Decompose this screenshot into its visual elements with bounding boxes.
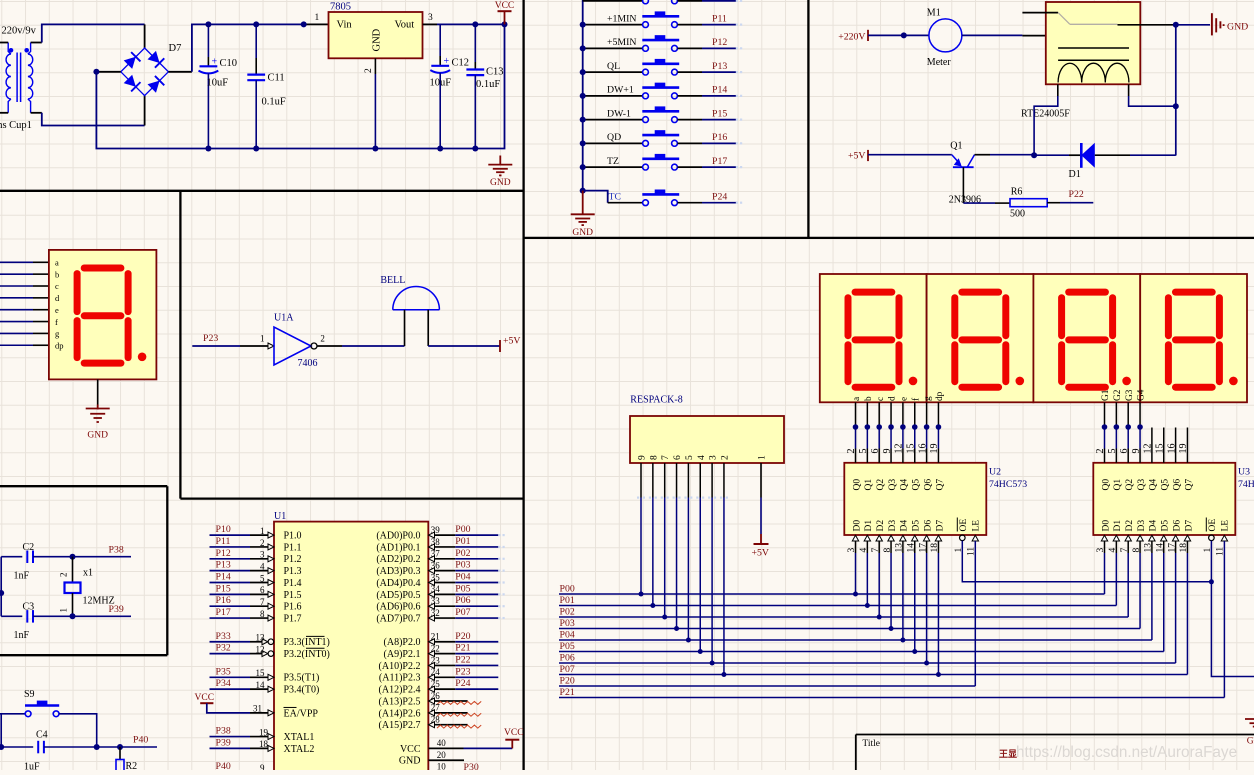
svg-text:BELL: BELL bbox=[380, 275, 405, 286]
wire relay coil right pin bbox=[1128, 84, 1130, 96]
svg-text:D7: D7 bbox=[1184, 520, 1194, 532]
latch U3 74HC573 bbox=[1093, 444, 1254, 557]
svg-text:XTAL1: XTAL1 bbox=[284, 732, 315, 743]
svg-text:U2: U2 bbox=[989, 467, 1001, 478]
svg-text:1: 1 bbox=[260, 526, 265, 536]
svg-text:(A15)P2.7: (A15)P2.7 bbox=[379, 720, 421, 731]
svg-text:10: 10 bbox=[437, 762, 447, 770]
svg-text:74HC573: 74HC573 bbox=[1238, 479, 1254, 490]
svg-text:2: 2 bbox=[320, 334, 325, 344]
pin 35 (AD4)P0.4 with net label P04 bbox=[376, 572, 504, 589]
svg-text:P06: P06 bbox=[560, 652, 575, 663]
svg-text:G4: G4 bbox=[1137, 389, 1147, 401]
capacitor C11 0.1uF bbox=[247, 24, 286, 148]
svg-text:D1: D1 bbox=[1113, 520, 1123, 532]
display DS2 pin labels a-dp bbox=[852, 391, 945, 401]
svg-text:(AD1)P0.1: (AD1)P0.1 bbox=[376, 542, 420, 553]
U2 LE pin wire to P20 bbox=[972, 535, 978, 541]
section divider vertical center bbox=[522, 0, 524, 770]
wire bridge right up to VCC rail bbox=[168, 71, 192, 73]
wire crystal top to P38 bbox=[73, 556, 132, 558]
push button S1 bbox=[583, 0, 743, 4]
svg-text:2: 2 bbox=[720, 455, 730, 460]
svg-text:P38: P38 bbox=[216, 726, 231, 737]
svg-text:P39: P39 bbox=[216, 737, 231, 748]
section divider buttons/relay vertical bbox=[807, 0, 809, 238]
junction pin1 wire bbox=[301, 21, 307, 27]
junction button bus bbox=[580, 117, 586, 123]
svg-text:4: 4 bbox=[260, 561, 265, 571]
capacitor C3 1nF bbox=[1, 602, 72, 642]
U2 OE pin bubble and wire bbox=[960, 535, 966, 541]
svg-text:f: f bbox=[55, 317, 58, 327]
wires to left display pins a-dp bbox=[0, 261, 33, 263]
junction U2 D3 to P03 bbox=[889, 626, 894, 631]
power port +5V bell bbox=[499, 340, 501, 352]
svg-text:dp: dp bbox=[55, 340, 64, 350]
svg-text:TC: TC bbox=[609, 192, 622, 203]
svg-text:b: b bbox=[55, 269, 59, 279]
U2 output pin triangles and wires down bbox=[852, 535, 858, 594]
wire D1 to GND net bbox=[1095, 154, 1130, 156]
svg-text:U1: U1 bbox=[274, 511, 286, 522]
junction button bus bbox=[580, 45, 586, 51]
svg-text:P12: P12 bbox=[712, 37, 727, 48]
svg-text:3: 3 bbox=[709, 455, 719, 460]
svg-text:P13: P13 bbox=[216, 560, 231, 571]
svg-text:P16: P16 bbox=[216, 595, 231, 606]
svg-text:P23: P23 bbox=[455, 666, 470, 677]
svg-text:7: 7 bbox=[260, 597, 265, 607]
svg-text:7805: 7805 bbox=[330, 2, 351, 13]
svg-text:(AD4)P0.4: (AD4)P0.4 bbox=[376, 578, 420, 589]
svg-text:P33: P33 bbox=[216, 631, 231, 642]
junction U2 D1 to P01 bbox=[865, 603, 870, 608]
svg-text:Meter: Meter bbox=[927, 57, 952, 68]
svg-text:e: e bbox=[55, 305, 59, 315]
wire S9 left down bbox=[0, 714, 2, 747]
svg-text:(AD2)P0.2: (AD2)P0.2 bbox=[376, 554, 420, 565]
wire P23 to U1A input bbox=[192, 345, 240, 347]
svg-text:D4: D4 bbox=[900, 520, 910, 532]
svg-text:Trans Cup1: Trans Cup1 bbox=[0, 120, 32, 131]
pin 3 P1.2 with wire and net label P12 bbox=[210, 548, 302, 565]
svg-text:7: 7 bbox=[661, 455, 671, 460]
svg-text:2: 2 bbox=[260, 538, 265, 548]
svg-text:+5MIN: +5MIN bbox=[607, 37, 636, 48]
pin 27 (A14)P2.6 dangling bbox=[379, 703, 482, 720]
svg-text:P06: P06 bbox=[455, 595, 470, 606]
transistor Q1 2N3906 bbox=[949, 141, 981, 206]
junction C2 / crystal bbox=[70, 554, 76, 560]
U3 unconnected input stubs Q4-Q7 bbox=[1151, 428, 1153, 463]
svg-text:20: 20 bbox=[437, 750, 447, 760]
junction U2 D2 to P02 bbox=[877, 615, 882, 620]
svg-text:9: 9 bbox=[260, 763, 265, 770]
svg-text:9: 9 bbox=[638, 455, 648, 460]
svg-text:24: 24 bbox=[431, 667, 441, 677]
svg-text:23: 23 bbox=[431, 655, 441, 665]
svg-text:LE: LE bbox=[972, 520, 982, 532]
junction U2/U3 OE bbox=[1209, 579, 1214, 584]
svg-text:P22: P22 bbox=[1069, 189, 1084, 200]
svg-text:Vin: Vin bbox=[337, 20, 353, 31]
svg-text:6: 6 bbox=[260, 585, 265, 595]
capacitor C12 10uF bbox=[430, 24, 470, 148]
svg-text:(A13)P2.5: (A13)P2.5 bbox=[379, 696, 421, 707]
svg-text:S9: S9 bbox=[24, 689, 35, 700]
microcontroller U1 (8051) bbox=[274, 522, 428, 775]
svg-text:8: 8 bbox=[649, 455, 659, 460]
pin 34 (AD5)P0.5 with net label P05 bbox=[376, 583, 504, 600]
svg-text:U3: U3 bbox=[1238, 467, 1250, 478]
pin 18 XTAL2 bbox=[210, 737, 315, 754]
svg-text:P03: P03 bbox=[560, 618, 575, 629]
junction button bus bottom bbox=[580, 188, 586, 194]
wire meter to relay bbox=[962, 34, 1023, 36]
wire net P04 horizontal bbox=[559, 639, 1152, 641]
svg-text:D2: D2 bbox=[1125, 520, 1135, 532]
svg-text:R6: R6 bbox=[1011, 187, 1023, 198]
svg-text:6: 6 bbox=[673, 455, 683, 460]
svg-text:GND: GND bbox=[490, 178, 511, 188]
pin 12 P3.2(INT0) bbox=[210, 643, 330, 660]
svg-text:D4: D4 bbox=[1149, 520, 1159, 532]
junction bridge left bbox=[93, 69, 99, 75]
pin 20 GND wire bbox=[399, 750, 464, 767]
junction RESPACK pin to P04 bbox=[686, 638, 691, 643]
wire relay coil left pin bbox=[1057, 84, 1059, 96]
svg-text:P02: P02 bbox=[560, 606, 575, 617]
svg-text:P32: P32 bbox=[216, 643, 231, 654]
svg-text:a: a bbox=[852, 397, 862, 401]
wire net P21 horizontal bbox=[559, 697, 1224, 699]
svg-text:Q6: Q6 bbox=[1172, 479, 1182, 491]
pin 39 (AD0)P0.0 with net label P00 bbox=[376, 524, 504, 541]
junction VCC corner bbox=[502, 21, 508, 27]
junction RESPACK pin to P02 bbox=[662, 615, 667, 620]
svg-text:C11: C11 bbox=[268, 73, 285, 84]
svg-text:D0: D0 bbox=[852, 520, 862, 532]
svg-text:C12: C12 bbox=[452, 58, 470, 69]
wire crystal bottom to P39 bbox=[73, 615, 132, 617]
svg-text:P03: P03 bbox=[455, 560, 470, 571]
svg-text:1: 1 bbox=[758, 455, 768, 460]
section divider U1 top bbox=[180, 497, 523, 499]
junction VCC rail C10 bbox=[205, 21, 211, 27]
7-segment display DS4 bbox=[1033, 274, 1140, 402]
pin 28 (A15)P2.7 dangling bbox=[379, 715, 482, 732]
svg-text:dp: dp bbox=[935, 391, 945, 401]
svg-text:Q1: Q1 bbox=[1113, 479, 1123, 491]
wire net P01 horizontal bbox=[559, 605, 1116, 607]
svg-text:P11: P11 bbox=[712, 13, 727, 24]
pin 1 arrow bbox=[268, 343, 274, 349]
svg-text:R2: R2 bbox=[126, 761, 138, 770]
svg-text:g: g bbox=[923, 396, 933, 401]
svg-text:26: 26 bbox=[431, 691, 441, 701]
svg-text:P01: P01 bbox=[455, 536, 470, 547]
pin 25 (A12)P2.4 net P24 bbox=[379, 678, 499, 695]
bridge rectifier D7 bbox=[121, 43, 182, 96]
svg-text:P34: P34 bbox=[216, 678, 231, 689]
svg-text:VCC: VCC bbox=[195, 693, 215, 703]
svg-text:P3.3(INT1): P3.3(INT1) bbox=[284, 637, 330, 648]
svg-text:(A8)P2.0: (A8)P2.0 bbox=[384, 637, 421, 648]
svg-text:LE: LE bbox=[1221, 520, 1231, 532]
svg-text:(AD3)P0.3: (AD3)P0.3 bbox=[376, 566, 420, 577]
svg-text:+: + bbox=[212, 57, 218, 68]
junction button bus bbox=[580, 140, 586, 146]
svg-text:RESPACK-8: RESPACK-8 bbox=[630, 395, 682, 406]
wire BELL to +5V bbox=[428, 345, 500, 347]
svg-text:1: 1 bbox=[59, 608, 69, 613]
svg-text:Q7: Q7 bbox=[935, 479, 945, 491]
svg-text:GND: GND bbox=[1227, 22, 1248, 33]
svg-text:P39: P39 bbox=[109, 604, 124, 615]
svg-text:U1A: U1A bbox=[274, 313, 294, 324]
svg-text:P21: P21 bbox=[560, 687, 575, 698]
junction Q1 collector / coil bbox=[1031, 152, 1037, 158]
resistor pack RESPACK-8 bbox=[630, 395, 784, 464]
svg-text:P40: P40 bbox=[216, 761, 231, 770]
svg-text:22: 22 bbox=[431, 643, 440, 653]
junction RESPACK pin to P05 bbox=[698, 649, 703, 654]
svg-text:D5: D5 bbox=[912, 520, 922, 532]
svg-text:P24: P24 bbox=[455, 678, 470, 689]
svg-text:+5V: +5V bbox=[848, 151, 866, 162]
svg-text:+5V: +5V bbox=[752, 548, 770, 559]
svg-text:1uF: 1uF bbox=[24, 762, 40, 771]
push button S4 QL bbox=[583, 59, 743, 75]
svg-text:+5V: +5V bbox=[503, 335, 521, 346]
svg-text:P14: P14 bbox=[712, 85, 727, 96]
svg-text:10uF: 10uF bbox=[430, 78, 452, 89]
pin 6 P1.5 with wire and net label P15 bbox=[210, 583, 302, 600]
svg-text:DW-1: DW-1 bbox=[607, 108, 631, 119]
svg-text:D1: D1 bbox=[1069, 169, 1081, 180]
svg-text:P05: P05 bbox=[560, 641, 575, 652]
pin 1 P1.0 with wire and net label P10 bbox=[210, 524, 302, 541]
junction C3 / crystal bbox=[70, 613, 76, 619]
pin 19 XTAL1 bbox=[210, 726, 315, 743]
svg-text:25: 25 bbox=[431, 679, 441, 689]
svg-text:5: 5 bbox=[260, 573, 265, 583]
section divider crystal box top bbox=[0, 485, 167, 487]
junction C4 / S9 right bbox=[94, 744, 100, 750]
wire transformer primary bottom bbox=[0, 112, 8, 114]
svg-text:P13: P13 bbox=[712, 61, 727, 72]
svg-text:P01: P01 bbox=[560, 595, 575, 606]
svg-text:Q5: Q5 bbox=[912, 479, 922, 491]
junction U2 D4 to P04 bbox=[900, 638, 905, 643]
pin 10 P30 label bbox=[437, 762, 479, 774]
svg-text:3: 3 bbox=[428, 13, 433, 23]
resistor R6 500 bbox=[1010, 187, 1047, 220]
svg-text:D7: D7 bbox=[169, 43, 182, 54]
wire R6 to P22 bbox=[1047, 202, 1060, 204]
wire +5V to Q1 emitter bbox=[868, 154, 952, 156]
svg-text:P3.2(INT0): P3.2(INT0) bbox=[284, 649, 330, 660]
pin 31 EA/VPP wire bbox=[250, 704, 318, 720]
power port +5V respack bbox=[760, 534, 762, 544]
svg-text:+1MIN: +1MIN bbox=[607, 13, 636, 24]
svg-text:P17: P17 bbox=[216, 607, 231, 618]
svg-text:c: c bbox=[876, 397, 886, 401]
wire net P05 horizontal bbox=[559, 651, 1164, 653]
power port VCC top bbox=[504, 11, 506, 24]
svg-text:38: 38 bbox=[431, 537, 441, 547]
display DS4 pin labels G1-G4 bbox=[1101, 389, 1147, 401]
svg-text:+220V: +220V bbox=[838, 32, 865, 43]
svg-text:GND: GND bbox=[572, 228, 593, 238]
svg-text:P1.3: P1.3 bbox=[284, 566, 302, 577]
svg-text:35: 35 bbox=[431, 572, 441, 582]
svg-text:P14: P14 bbox=[216, 572, 231, 583]
svg-text:37: 37 bbox=[431, 549, 441, 559]
pin 38 (AD1)P0.1 with net label P01 bbox=[376, 536, 504, 553]
svg-text:8: 8 bbox=[260, 609, 265, 619]
svg-text:VCC: VCC bbox=[400, 744, 421, 755]
svg-text:Q5: Q5 bbox=[1161, 479, 1171, 491]
svg-text:VCC: VCC bbox=[504, 728, 524, 738]
junction ground rail C11 bbox=[253, 146, 259, 152]
svg-text:b: b bbox=[864, 396, 874, 401]
ground symbol latches GND bbox=[1245, 718, 1254, 720]
svg-text:D3: D3 bbox=[888, 520, 898, 532]
wire net P02 horizontal bbox=[559, 616, 1128, 618]
wire net P06 horizontal bbox=[559, 662, 1176, 664]
wire net P20 horizontal bbox=[559, 685, 975, 687]
pin 13 P3.3(INT1) bbox=[210, 631, 330, 648]
svg-text:RTE24005F: RTE24005F bbox=[1021, 109, 1070, 120]
svg-text:OE: OE bbox=[959, 519, 969, 532]
title block border bbox=[856, 734, 1254, 736]
section divider left-display right edge bbox=[179, 191, 181, 499]
wires display DS2 to U2 inputs bbox=[855, 402, 857, 463]
junction relay GND net bbox=[1173, 22, 1179, 28]
svg-text:P35: P35 bbox=[216, 666, 231, 677]
transformer T1 (220v/9v Trans Cup1) bbox=[0, 26, 37, 132]
wires display DS4 G1-G4 to U3 bbox=[1104, 402, 1106, 463]
svg-text:4: 4 bbox=[697, 455, 707, 460]
capacitor C13 0.1uF bbox=[466, 24, 503, 148]
svg-text:(AD0)P0.0: (AD0)P0.0 bbox=[376, 531, 420, 542]
svg-text:D7: D7 bbox=[935, 520, 945, 532]
svg-text:P30: P30 bbox=[464, 762, 479, 770]
wire bridge left to ground rail bbox=[96, 71, 120, 73]
svg-text:OE: OE bbox=[1208, 519, 1218, 532]
pin 15 P3.5(T1) bbox=[210, 666, 320, 683]
wire U1A output bbox=[317, 345, 342, 347]
resistor R2 bbox=[116, 747, 137, 775]
U3 LE pin wire to P21 bbox=[1221, 535, 1227, 541]
svg-text:Title: Title bbox=[862, 739, 880, 749]
junction U2 D5 to P05 bbox=[912, 649, 917, 654]
svg-text:D5: D5 bbox=[1161, 520, 1171, 532]
svg-text:P1.5: P1.5 bbox=[284, 590, 302, 601]
wire net P07 horizontal bbox=[559, 674, 1187, 676]
svg-text:P23: P23 bbox=[203, 333, 218, 344]
svg-text:x1: x1 bbox=[83, 568, 93, 579]
wire left display common to ground bbox=[97, 379, 99, 404]
junction button bus bbox=[580, 69, 586, 75]
svg-text:P1.0: P1.0 bbox=[284, 531, 302, 542]
wire 7805 pin3 out bbox=[423, 23, 437, 25]
svg-text:0.1uF: 0.1uF bbox=[262, 97, 286, 108]
svg-text:D6: D6 bbox=[923, 520, 933, 532]
voltage regulator U 7805 bbox=[315, 2, 434, 74]
svg-text:Q0: Q0 bbox=[852, 479, 862, 491]
junction coil to GND net bbox=[1173, 103, 1179, 109]
svg-text:Q2: Q2 bbox=[1125, 479, 1135, 491]
wire to GND symbol right bbox=[1176, 24, 1210, 26]
svg-text:+: + bbox=[444, 56, 450, 67]
svg-text:D0: D0 bbox=[1101, 520, 1111, 532]
svg-text:P40: P40 bbox=[133, 735, 148, 746]
svg-text:P11: P11 bbox=[216, 536, 231, 547]
svg-text:P20: P20 bbox=[560, 675, 575, 686]
svg-text:P1.7: P1.7 bbox=[284, 613, 302, 624]
ground symbol left display GND bbox=[97, 405, 99, 410]
pin 21 (A8)P2.0 net P20 bbox=[384, 631, 499, 648]
junction button bus bbox=[580, 164, 586, 170]
svg-text:10uF: 10uF bbox=[207, 78, 229, 89]
svg-text:18: 18 bbox=[259, 739, 269, 749]
wire GND net vertical bbox=[1175, 25, 1177, 156]
svg-text:C10: C10 bbox=[220, 58, 238, 69]
push button S9 bbox=[0, 689, 97, 747]
section divider right area horizontal bbox=[524, 237, 1254, 239]
svg-text:P21: P21 bbox=[455, 643, 470, 654]
svg-text:P20: P20 bbox=[455, 631, 470, 642]
svg-text:1nF: 1nF bbox=[14, 630, 30, 641]
junction S9 left bbox=[0, 744, 4, 750]
svg-text:0.1uF: 0.1uF bbox=[476, 79, 500, 90]
svg-text:e: e bbox=[900, 397, 910, 401]
svg-text:74HC573: 74HC573 bbox=[989, 479, 1027, 490]
svg-text:33: 33 bbox=[431, 596, 441, 606]
svg-text:P16: P16 bbox=[712, 132, 727, 143]
wire transformer secondary bottom to bridge bbox=[31, 112, 42, 114]
7-segment display DS1 (left) bbox=[49, 250, 156, 380]
wire Q1 base to R6 bbox=[963, 202, 995, 204]
svg-text:D1: D1 bbox=[864, 520, 874, 532]
ground symbol power section GND bbox=[499, 156, 501, 165]
wire ground rail left bbox=[96, 24, 504, 148]
svg-text:(AD6)P0.6: (AD6)P0.6 bbox=[376, 602, 420, 613]
pin 5 P1.4 with wire and net label P14 bbox=[210, 572, 302, 589]
svg-text:c: c bbox=[55, 281, 59, 291]
7-segment display DS3 bbox=[927, 274, 1034, 402]
svg-text:P00: P00 bbox=[560, 583, 575, 594]
pin 33 (AD6)P0.6 with net label P06 bbox=[376, 595, 504, 612]
svg-text:P04: P04 bbox=[455, 572, 470, 583]
svg-text:G1: G1 bbox=[1101, 389, 1111, 401]
svg-text:https://blog.csdn.net/AuroraFa: https://blog.csdn.net/AuroraFaye bbox=[1016, 744, 1237, 761]
wire +220V to meter bbox=[868, 34, 929, 36]
svg-text:(A9)P2.1: (A9)P2.1 bbox=[384, 649, 421, 660]
svg-text:500: 500 bbox=[1010, 209, 1025, 220]
svg-text:P24: P24 bbox=[712, 192, 727, 203]
pin 23 (A10)P2.2 net P22 bbox=[379, 654, 499, 671]
svg-text:31: 31 bbox=[253, 704, 262, 714]
svg-text:28: 28 bbox=[431, 715, 441, 725]
ground symbol relay GND (rotated) bbox=[1212, 13, 1248, 35]
junction +220V wire bbox=[901, 32, 907, 38]
svg-text:13: 13 bbox=[256, 633, 266, 643]
push button S3 +5MIN bbox=[583, 35, 743, 51]
